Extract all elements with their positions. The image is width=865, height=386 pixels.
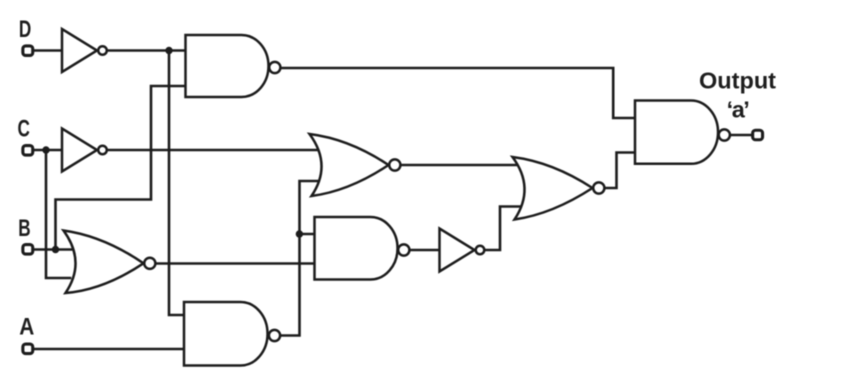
terminal input C bbox=[23, 146, 33, 156]
wire NAND G1 output to NAND G7 top input bbox=[275, 68, 637, 118]
junction node on D' line bbox=[165, 47, 172, 54]
wire NOR G2 output to NAND G5 bottom input bbox=[150, 262, 322, 265]
wire NAND G7 output to Output terminal bbox=[724, 134, 751, 137]
svg-text:D: D bbox=[19, 16, 31, 43]
wire B node up to NAND G1 bottom input bbox=[56, 86, 187, 250]
NOR gate G3 (middle) bbox=[310, 134, 389, 196]
NAND gate G5 (middle) bbox=[315, 217, 398, 280]
wire NOR G3 output to NOR G6 top input bbox=[395, 164, 524, 167]
inverter U1 (input D) bbox=[62, 29, 97, 72]
wire D terminal to inverter U1 bbox=[33, 49, 62, 52]
wire A terminal to NAND G4 bottom input bbox=[33, 348, 186, 351]
wire C terminal to inverter U2 bbox=[33, 149, 62, 152]
inverter U3 bbox=[440, 229, 475, 272]
NOR gate G6 (right) bbox=[513, 157, 593, 220]
junction node NAND G5 top input bbox=[296, 230, 303, 237]
terminal input A bbox=[23, 344, 33, 354]
svg-text:A: A bbox=[19, 312, 34, 340]
wire NAND G5 output to inverter U3 bbox=[404, 249, 440, 252]
wire inverter U3 output to NOR G6 bottom input bbox=[481, 207, 525, 251]
terminal input D bbox=[23, 46, 33, 56]
wire inverter U1 output to NAND G1 top input bbox=[103, 49, 186, 52]
NAND gate G1 (top) bbox=[186, 35, 269, 97]
junction node on B line bbox=[52, 246, 59, 253]
wire NAND G4 output up to NOR G3 bottom input bbox=[275, 181, 323, 336]
wire B terminal to NOR G2 top input bbox=[33, 248, 76, 251]
wire NOR G6 output to NAND G7 bottom input bbox=[599, 153, 637, 189]
inverter U2 (input C) bbox=[62, 129, 97, 172]
NAND gate G7 (output) bbox=[635, 101, 718, 164]
svg-text:C: C bbox=[18, 116, 30, 143]
wire inverter U2 output to NOR G3 top input bbox=[103, 149, 322, 152]
NOR gate G2 (inputs B,C) bbox=[64, 231, 144, 294]
svg-text:Output: Output bbox=[699, 68, 776, 94]
svg-text:‘a’: ‘a’ bbox=[727, 97, 749, 123]
junction node on C line bbox=[42, 146, 49, 153]
wire node D' down to NAND G4 top input bbox=[169, 51, 186, 316]
terminal Output bbox=[753, 130, 763, 140]
terminal input B bbox=[23, 245, 33, 255]
NAND gate G4 (bottom, input A) bbox=[184, 302, 268, 366]
wire C node down to NOR G2 bottom input bbox=[46, 150, 70, 278]
svg-text:B: B bbox=[18, 215, 30, 242]
wire node to NAND G5 top input bbox=[300, 233, 323, 236]
